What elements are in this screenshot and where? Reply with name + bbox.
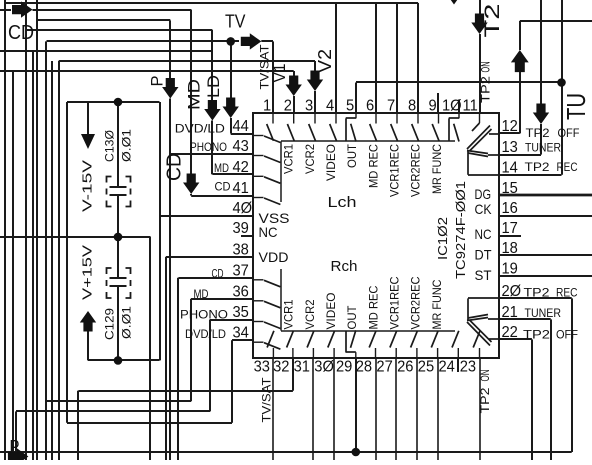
wire pin21 vertical (550, 319, 552, 460)
wire bus y=50.8 (0, 50, 212, 52)
wire bottom bus y=452 (P net) (0, 451, 572, 453)
wire MD vertical (211, 30, 213, 101)
switch contact pin35 (left) (253, 322, 280, 329)
switch contact pin4 (top) (330, 113, 337, 141)
svg-text:PHONO: PHONO (180, 308, 228, 322)
svg-text:OUT: OUT (345, 143, 359, 168)
internal bus left lower vertical (280, 269, 282, 331)
switch contact pin26 (bottom) (411, 331, 418, 358)
wire TV arrow to pin1 corner (261, 40, 273, 42)
wire pin11 arrow to pin (479, 34, 481, 113)
switch contact pin37 (left) (253, 280, 280, 287)
svg-text:Ø.Ø1: Ø.Ø1 (120, 306, 134, 339)
svg-text:34: 34 (233, 324, 249, 341)
junction C130 top (114, 98, 123, 107)
wire pin4 up (335, 3, 337, 113)
signal arrow CD (to pin41) (183, 174, 199, 195)
IC U1 IC102 TC9274F-001 body (253, 113, 499, 358)
wire P vertical lower (169, 99, 171, 461)
svg-text:MD: MD (194, 287, 209, 301)
riser mid bus x=150.5 (149, 237, 151, 460)
wire pin23 down (479, 358, 481, 460)
switch contact pin41 (left) (253, 198, 280, 205)
wire pin12 horizontal (499, 132, 520, 134)
wire pin43 horizontal (170, 153, 253, 155)
svg-text:19: 19 (502, 260, 518, 277)
switch contact pin7 (top) (391, 113, 398, 141)
svg-text:TP2: TP2 (525, 160, 550, 174)
bus column x=33 (32, 51, 34, 460)
svg-text:TUNER: TUNER (525, 306, 562, 320)
wire pin10 stub (458, 100, 460, 114)
signal arrow P (162, 78, 178, 99)
svg-text:VIDEO: VIDEO (324, 293, 338, 330)
svg-text:37: 37 (233, 262, 249, 279)
svg-text:DG: DG (475, 186, 492, 202)
switch contact pin9 (top) (432, 113, 439, 141)
switch contact pin23 (bottom) (473, 331, 480, 358)
svg-text:CK: CK (475, 201, 493, 217)
svg-text:TP2: TP2 (480, 388, 492, 414)
wire pin25 down (437, 358, 439, 460)
wire TP2 REC vertical x=561.5 (561, 0, 563, 175)
svg-text:11: 11 (463, 97, 478, 114)
svg-text:DVD/LD: DVD/LD (185, 327, 226, 341)
svg-text:VCR2: VCR2 (303, 299, 317, 329)
wire staircase h1 y=390.7 (78, 390, 293, 392)
signal arrow TV (241, 33, 261, 49)
signal arrow CD (top left) (12, 1, 33, 17)
svg-text:3: 3 (305, 97, 313, 114)
riser VDD x=166 (165, 257, 167, 460)
wire pin18 (499, 254, 592, 256)
wire pin1 down (TV/SAT) (272, 41, 274, 113)
wire pin32 down (292, 358, 294, 391)
svg-text:43: 43 (233, 138, 249, 155)
svg-text:V1: V1 (270, 64, 289, 83)
bus column x=52.5 (51, 61, 53, 460)
wire pin6 up (375, 3, 377, 113)
signal arrow LD (223, 98, 239, 119)
svg-text:42: 42 (233, 158, 249, 175)
wire pin38 VDD horizontal (166, 256, 253, 258)
wire V2 corner down (314, 61, 316, 71)
switch contact pin25 (bottom) (431, 331, 438, 358)
junction C130/C129 (114, 233, 123, 242)
wire V2 horizontal (59, 60, 315, 62)
svg-text:OFF: OFF (558, 126, 580, 140)
switch contact pin24 (bottom) (452, 331, 459, 358)
svg-text:39: 39 (233, 220, 249, 237)
signal arrow P (bottom) (8, 448, 29, 464)
riser x=67 (V- line to staircase h4) (66, 102, 68, 423)
svg-text:OUT: OUT (345, 305, 359, 330)
svg-text:MR FUNC: MR FUNC (430, 279, 444, 329)
wire pin8 up (417, 3, 419, 113)
switch contact pin36 (left) (253, 301, 280, 308)
wire pin22 vertical (531, 339, 533, 460)
wire C130 top lead (117, 102, 119, 187)
wire pin29 down to dot (355, 358, 357, 452)
svg-text:8: 8 (408, 97, 416, 114)
svg-text:7: 7 (387, 97, 395, 114)
wire pin40 VSS horizontal (160, 215, 254, 217)
svg-text:TP2: TP2 (524, 286, 550, 300)
signal arrow (clipped, top edge) (446, 0, 462, 5)
riser TV x=46.5 (45, 41, 47, 460)
signal arrow V1 (286, 76, 302, 97)
svg-text:TV/SAT: TV/SAT (260, 377, 274, 423)
wire CD from left edge (0, 9, 11, 11)
capacitor C129 plate top (110, 277, 127, 279)
svg-text:28: 28 (356, 358, 372, 375)
stub pin39 NC (241, 235, 253, 237)
wire pin26 down (416, 358, 418, 460)
svg-text:P: P (148, 76, 167, 87)
svg-text:C129: C129 (103, 308, 117, 340)
wire CD arrow tip (190, 194, 192, 196)
svg-text:38: 38 (233, 241, 249, 258)
svg-text:29: 29 (336, 358, 352, 375)
signal arrow MD (204, 100, 220, 121)
riser V2 x=58.7 (58, 61, 60, 460)
wire TV net horizontal (47, 40, 231, 42)
svg-text:TP2: TP2 (523, 328, 550, 342)
svg-text:MD REC: MD REC (367, 285, 381, 329)
switch contact pin11 (top) (472, 113, 480, 131)
svg-text:MD: MD (214, 161, 229, 175)
svg-text:VCR1: VCR1 (282, 144, 296, 174)
wire C130 bottom lead (117, 195, 119, 237)
junction TV/LD (226, 37, 235, 46)
wire pin15 DG (thick) (499, 194, 592, 197)
svg-text:2Ø: 2Ø (502, 283, 522, 300)
switch contact pin3 (top) (309, 113, 316, 141)
svg-text:Rch: Rch (331, 259, 358, 275)
svg-text:25: 25 (418, 358, 434, 375)
svg-text:MR FUNC: MR FUNC (430, 144, 444, 194)
signal arrow V2 (307, 71, 323, 92)
svg-text:27: 27 (376, 358, 392, 375)
wire pin11 from top (479, 0, 481, 15)
wire pin22 horizontal (499, 338, 532, 340)
stub pin17 (499, 235, 521, 237)
wire pin35 horizontal (210, 319, 253, 321)
junction C129 bottom / V+15V (114, 356, 123, 365)
switch contact pin1 (top) (267, 113, 274, 141)
switch contact pin27 (bottom) (390, 331, 397, 358)
switch contact pin30 (bottom) (328, 331, 335, 358)
svg-text:T2: T2 (481, 4, 504, 38)
capacitor C130 plate bottom (110, 194, 127, 196)
switch contact pin8 (top) (412, 113, 419, 141)
svg-text:5: 5 (346, 97, 354, 114)
switch contact pin28 (bottom) (369, 331, 376, 358)
svg-text:VCR1REC: VCR1REC (388, 276, 402, 329)
wire pin13 horizontal (499, 154, 541, 156)
switch contact pin44 (left) (253, 136, 280, 143)
wire pin31 down (312, 358, 314, 460)
stub pin24 (457, 358, 459, 372)
wire LD vertical (230, 41, 232, 98)
wire P vertical upper (169, 20, 171, 79)
wire V-15V arrow stem (87, 102, 89, 134)
svg-text:9: 9 (429, 97, 437, 114)
svg-text:14: 14 (502, 159, 518, 176)
wire C129 bottom lead (117, 287, 119, 361)
svg-text:3Ø: 3Ø (314, 358, 334, 375)
svg-text:MD REC: MD REC (367, 144, 381, 188)
svg-text:1Ø: 1Ø (442, 97, 462, 114)
dashed outline capacitor C129 (107, 268, 131, 298)
wire pin9 stub (437, 93, 439, 113)
svg-text:VCR2REC: VCR2REC (409, 276, 423, 329)
wire top bus y=2.9 (5, 2, 418, 4)
svg-text:V2: V2 (315, 49, 335, 73)
svg-text:DT: DT (475, 247, 492, 263)
svg-text:LD: LD (204, 75, 223, 98)
riser h3 end x=16 (15, 411, 17, 460)
svg-text:23: 23 (460, 358, 476, 375)
bus column x=13 (12, 71, 14, 452)
switch contact pin33 (bottom) (267, 331, 274, 358)
internal bus Lch horizontal (281, 140, 455, 142)
svg-text:DVD/LD: DVD/LD (175, 122, 225, 136)
junction pin29/bottom bus (352, 448, 361, 457)
signal arrow TP2 ON (pin11) (471, 14, 487, 35)
switch contact pin43 (left) (253, 156, 280, 163)
wire V-15V rail horizontal y=102 (67, 101, 160, 103)
svg-text:ST: ST (475, 267, 492, 283)
wire pin14 horizontal (499, 174, 562, 176)
wire V+15V arrow stem (87, 329, 89, 360)
switch contact pin6 (top) (370, 113, 377, 141)
wire pin42 horizontal (212, 173, 253, 175)
wire mid bus y=236.9 (0, 236, 151, 238)
bus column x=5 (4, 0, 6, 460)
svg-text:41: 41 (233, 180, 249, 197)
svg-text:VCR2: VCR2 (303, 144, 317, 174)
wire pin16 (499, 215, 592, 217)
wire pin7 up (396, 3, 398, 113)
svg-text:PHONO: PHONO (190, 140, 227, 154)
svg-text:Ø.Ø1: Ø.Ø1 (120, 129, 134, 162)
wire pin37 horizontal (178, 277, 253, 279)
wire staircase h2 y=401.3 (47, 400, 192, 402)
svg-text:6: 6 (366, 97, 374, 114)
svg-text:IC1Ø2: IC1Ø2 (435, 217, 450, 260)
svg-text:CD: CD (215, 180, 231, 194)
svg-text:TUNER: TUNER (525, 141, 561, 155)
svg-text:MD: MD (185, 79, 204, 110)
junction TP2 REC net (557, 78, 566, 87)
svg-text:NC: NC (259, 224, 278, 240)
svg-text:24: 24 (439, 358, 455, 375)
wire CD horizontal (33, 9, 192, 11)
switch contact pin29 (bottom, bracket) (346, 330, 356, 358)
switch contact pin42 (left) (253, 176, 280, 183)
svg-text:VDD: VDD (259, 249, 289, 265)
arrow V-15V (open triangle) (81, 134, 95, 149)
svg-text:OFF: OFF (556, 328, 578, 342)
internal bus Rch horizontal (281, 330, 455, 332)
svg-text:21: 21 (502, 304, 518, 321)
signal arrow TP2 OFF (up) (511, 50, 529, 72)
svg-text:18: 18 (502, 240, 518, 257)
svg-text:NC: NC (475, 226, 492, 242)
riser pin36 MD x=191 (190, 299, 192, 402)
dashed outline capacitor C130 (107, 177, 131, 207)
svg-text:31: 31 (294, 358, 310, 375)
svg-text:VCR2REC: VCR2REC (409, 144, 423, 197)
svg-text:CD: CD (8, 22, 34, 44)
svg-text:ON: ON (481, 62, 493, 73)
wire pin20 vertical x=571.7 (571, 298, 573, 452)
svg-text:33: 33 (254, 358, 270, 375)
wire pin28 down (375, 358, 377, 460)
svg-text:REC: REC (556, 286, 578, 300)
switch contacts pins 20-22 (right lower) (467, 298, 499, 346)
svg-text:44: 44 (233, 118, 249, 135)
signal arrow TUNER (533, 104, 549, 125)
svg-text:22: 22 (502, 324, 518, 341)
svg-text:CD: CD (164, 153, 186, 181)
svg-text:VIDEO: VIDEO (324, 144, 338, 181)
svg-text:17: 17 (502, 220, 518, 237)
wire pin33 down (272, 358, 274, 460)
wire pin44 horizontal (231, 133, 253, 135)
wire TV to arrow (231, 40, 239, 42)
svg-text:TC9274F-ØØ1: TC9274F-ØØ1 (453, 181, 468, 279)
svg-text:V+15V: V+15V (81, 244, 95, 300)
svg-text:15: 15 (502, 179, 518, 196)
svg-text:32: 32 (273, 358, 289, 375)
wire CD vertical (190, 10, 192, 174)
riser pin35 PHONO x=210 (209, 320, 211, 412)
svg-text:36: 36 (233, 283, 249, 300)
svg-text:13: 13 (502, 139, 518, 156)
svg-text:TP2: TP2 (526, 126, 550, 140)
wire MD arrow to pin42 wire (211, 121, 213, 175)
wire V+15V rail horizontal y=360.4 (88, 359, 160, 361)
arrow V+15V (80, 311, 96, 332)
switch contact pin34 (left) (253, 342, 280, 349)
riser pin37 CD x=178.4 (177, 278, 179, 460)
bus column x=25.5 (MD) (25, 0, 27, 460)
riser pin34 x=232 (231, 340, 233, 423)
wire staircase h4 y=422.8 (67, 422, 232, 424)
switch contact pin2 (top) (287, 113, 294, 141)
wire pin27 down (395, 358, 397, 460)
switch contacts pins 12-14 (right upper) (467, 126, 499, 176)
wire pin5 up (355, 83, 357, 114)
svg-text:12: 12 (502, 118, 518, 135)
riser h1 end x=78.4 (77, 391, 79, 460)
bus column x=36.9 (P) (36, 0, 38, 460)
riser V rail x=159.5 (159, 102, 161, 360)
wire P horizontal (37, 19, 170, 21)
internal bus left upper vertical (280, 141, 282, 202)
wire TUNER arrow down (540, 124, 542, 155)
svg-text:ON: ON (480, 370, 492, 382)
svg-text:2: 2 (284, 97, 292, 114)
wire C129 top lead (117, 237, 119, 279)
svg-text:4: 4 (326, 97, 334, 114)
svg-text:VCR1REC: VCR1REC (388, 144, 402, 197)
wire pin41 horizontal (191, 195, 253, 197)
wire V1 corner down (293, 71, 295, 77)
wire V2 arrow to pin3 (314, 91, 316, 113)
wire pin36 horizontal (191, 298, 253, 300)
wire pin12 vertical (519, 72, 521, 133)
svg-text:16: 16 (502, 200, 518, 217)
svg-text:V-15V: V-15V (81, 159, 95, 212)
wire pin21 horizontal (499, 318, 551, 320)
svg-text:CD: CD (212, 269, 224, 281)
wire staircase h3 y=411.4 (16, 410, 210, 412)
svg-text:C13Ø: C13Ø (103, 130, 117, 162)
svg-text:TV: TV (225, 12, 246, 32)
wire pin19 (499, 275, 592, 277)
svg-text:TU: TU (561, 93, 591, 120)
wire V1 arrow to pin2 (293, 96, 295, 113)
svg-text:P: P (10, 437, 20, 457)
wire pin34 horizontal (232, 339, 253, 341)
wire TP2 OFF to right edge y=21 (520, 20, 592, 22)
svg-text:REC: REC (557, 160, 578, 174)
svg-text:35: 35 (233, 304, 249, 321)
wire V1 horizontal (0, 70, 294, 72)
switch contact pin32 (bottom) (287, 331, 294, 358)
switch contact pin10 (top, bracket) (449, 113, 459, 142)
wire LD arrow to pin44 wire (230, 118, 232, 134)
capacitor C130 plate top (110, 186, 127, 188)
svg-text:4Ø: 4Ø (233, 200, 253, 217)
wire MD horizontal (26, 29, 213, 31)
wire pin20 horizontal (499, 297, 572, 299)
svg-text:VCR1: VCR1 (282, 299, 296, 329)
wire TUNER from top (540, 0, 542, 105)
svg-text:26: 26 (397, 358, 413, 375)
svg-text:Lch: Lch (328, 195, 357, 211)
switch contact pin5 (top, bracket) (346, 113, 356, 142)
capacitor C129 plate bottom (110, 285, 127, 287)
svg-text:1: 1 (263, 97, 271, 114)
wire pin30 down (333, 358, 335, 460)
wire pin12 vertical above arrow (519, 21, 521, 50)
svg-text:TP2: TP2 (481, 76, 493, 103)
wire pin5/pin14 net horizontal y=82.5 (356, 81, 562, 83)
switch contact pin31 (bottom) (307, 331, 314, 358)
